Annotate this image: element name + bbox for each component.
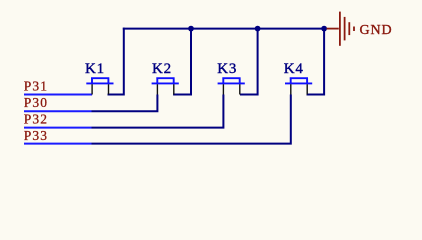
push button K3 [218, 78, 245, 94]
junction dot at K4 riser / GND [321, 26, 327, 32]
wire: net P30 stub [24, 110, 92, 112]
ground symbol GND [327, 12, 354, 46]
wire: K3 left pin drop to P32 line [92, 95, 225, 128]
wire: K4 left pin drop to P33 line [92, 95, 292, 144]
svg-text:K4: K4 [284, 61, 304, 77]
wire: K2 left pin drop to P30 line [92, 95, 159, 112]
wire: riser from K4 right pin to rail [307, 29, 326, 95]
wire: net P33 stub [24, 143, 92, 145]
push button K2 [152, 78, 179, 94]
svg-text:P33: P33 [24, 128, 48, 143]
junction dot at K3 riser [255, 26, 261, 32]
svg-text:P31: P31 [24, 78, 48, 93]
junction dot at K2 riser [188, 26, 194, 32]
svg-text:K2: K2 [152, 61, 172, 77]
wire: riser from K3 right pin to rail [240, 29, 259, 95]
svg-text:K1: K1 [85, 61, 105, 77]
svg-text:P32: P32 [24, 112, 48, 127]
wire: net P31 stub [24, 94, 92, 96]
sheet background [0, 0, 422, 171]
svg-text:K3: K3 [217, 61, 237, 77]
wire: top GND rail [123, 28, 324, 30]
wire: riser from K2 right pin to rail [173, 29, 192, 95]
push button K4 [285, 78, 312, 94]
push button K1 [86, 78, 113, 94]
wire: net P32 stub [24, 127, 92, 129]
wire: riser from K1 right pin to rail [108, 28, 125, 95]
svg-text:GND: GND [360, 23, 393, 38]
svg-text:P30: P30 [24, 95, 48, 110]
